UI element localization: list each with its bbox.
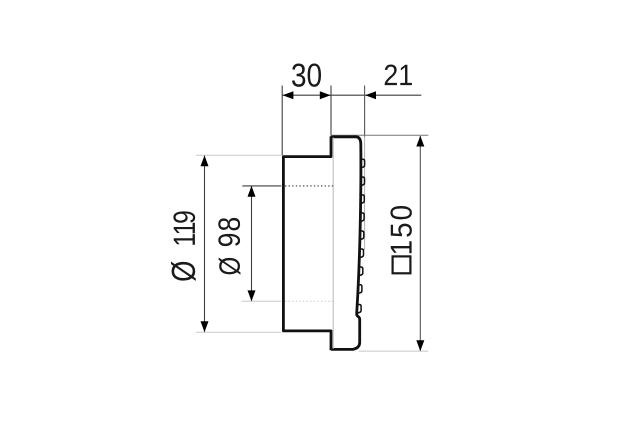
label dia 119 digits	[173, 211, 195, 244]
dia98 dotted top (dark)	[285, 185, 334, 187]
label 21	[385, 65, 412, 86]
extension line x=364.6 upper	[364, 86, 366, 137]
label sq150 square	[393, 256, 411, 273]
dia98 dotted bottom (light)	[285, 300, 334, 302]
dia98 dimension line	[251, 186, 253, 301]
label 30	[292, 63, 321, 86]
front cover body	[331, 137, 361, 350]
arrow dia119 top	[201, 155, 209, 166]
extension line x=364.6 lower (light)	[364, 137, 366, 251]
arrow 21 (outside, pointing left)	[365, 91, 376, 99]
sq150 top extension	[332, 134, 428, 136]
label dia 98 digits	[218, 218, 240, 246]
sq150 dimension line	[419, 136, 421, 351]
duct body with step edges	[283, 136, 331, 350]
label dia 98 symbol	[219, 258, 241, 275]
arrow dia98 bottom	[248, 290, 256, 301]
dia119 bottom extension (light)	[196, 331, 281, 333]
label dia 119 symbol	[171, 262, 196, 281]
extension line x=282	[281, 86, 283, 156]
arrow 30 right	[320, 91, 331, 99]
cover louvre teeth	[356, 159, 364, 313]
extension line x=331	[330, 86, 332, 136]
arrow sq150 top	[416, 136, 424, 147]
junction grey line	[332, 138, 334, 349]
top dimension line y=95	[282, 94, 421, 96]
arrow dia98 top	[248, 186, 256, 197]
sq150 bottom extension (light)	[359, 350, 429, 352]
dia98 bottom extension (light)	[242, 300, 282, 302]
dia119 dimension line	[204, 156, 206, 332]
dia119 top extension (light)	[196, 154, 281, 156]
arrow 30 left	[283, 91, 294, 99]
arrow sq150 bottom	[416, 340, 424, 351]
arrow dia119 bottom	[201, 321, 209, 332]
label 150	[390, 206, 411, 253]
dia98 top extension (dark)	[242, 185, 281, 187]
